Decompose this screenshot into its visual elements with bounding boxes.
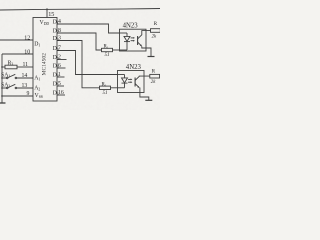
svg-text:3: 3	[58, 36, 61, 42]
ground of U3 emitter	[145, 99, 152, 101]
ground of U2 emitter	[148, 56, 155, 58]
node: bus junction at SA1	[1, 77, 3, 79]
node: bus junction at SA2	[1, 87, 3, 89]
op-amp U1 body: IC MC14502 rectangle	[33, 18, 57, 102]
resistor R1	[102, 48, 113, 51]
svg-text:14: 14	[22, 73, 28, 79]
svg-text:R1: R1	[104, 45, 109, 50]
svg-text:A2: A2	[34, 86, 40, 92]
svg-text:2k: 2k	[151, 80, 156, 85]
light arrows of U2	[131, 37, 135, 39]
optocoupler U3 4N23 box	[118, 71, 145, 93]
svg-text:4: 4	[58, 19, 61, 25]
wire: output pin 4 row	[57, 24, 120, 33]
svg-text:13: 13	[22, 83, 28, 89]
wire: output pin 6 stub	[57, 67, 66, 69]
diode LED of U3	[118, 74, 125, 76]
svg-text:11: 11	[23, 62, 29, 68]
svg-text:R3: R3	[8, 60, 14, 66]
node: bus junction at R3	[1, 66, 3, 68]
ground	[0, 102, 6, 104]
svg-text:9: 9	[27, 91, 30, 97]
svg-text:SA1: SA1	[1, 73, 10, 79]
svg-text:2k: 2k	[152, 35, 157, 40]
wire: output pin 7 row to opto2 anode	[57, 51, 118, 75]
wire: output pin 5 stub	[57, 85, 64, 87]
diode LED of U2	[120, 32, 128, 34]
resistor R (load of U3)	[150, 74, 160, 78]
wire: pin 9	[2, 95, 33, 97]
node: bus junction at pin 9	[1, 95, 3, 97]
svg-text:12: 12	[24, 35, 30, 41]
svg-text:6: 6	[58, 63, 61, 69]
svg-text:R1: R1	[102, 82, 107, 87]
svg-text:VDD: VDD	[40, 20, 50, 26]
wire: output pin 3 row down to R2	[57, 41, 100, 88]
wire: left ground bus	[1, 54, 3, 103]
wire: output pin 1 stub	[57, 76, 65, 78]
svg-text:5: 5	[58, 81, 61, 87]
wire: pin 12 input D1	[0, 39, 33, 41]
svg-text:A1: A1	[34, 76, 40, 82]
resistor R2	[100, 86, 111, 89]
light arrows of U3	[128, 78, 132, 80]
svg-text:1: 1	[58, 72, 61, 78]
svg-text:MC14502: MC14502	[41, 53, 47, 76]
svg-text:R: R	[154, 21, 158, 27]
svg-text:VSS: VSS	[35, 93, 43, 99]
svg-text:51: 51	[105, 53, 110, 58]
svg-text:SA2: SA2	[1, 83, 10, 89]
transistor Q2 phototransistor of U3	[134, 78, 136, 87]
svg-text:10: 10	[24, 49, 30, 55]
optocoupler U2 4N23 box	[120, 29, 147, 51]
svg-text:R: R	[152, 69, 156, 75]
wire: pin 10 input	[2, 53, 33, 55]
svg-text:4N23: 4N23	[126, 64, 142, 71]
svg-text:D1: D1	[34, 42, 40, 48]
wire: output pin 8 row to R1	[57, 33, 102, 50]
svg-text:51: 51	[103, 91, 108, 96]
wire: VDD pin 15 from rail to IC	[46, 9, 48, 17]
resistor R (load of U2)	[151, 29, 161, 33]
wire: output pin 16 stub	[57, 94, 65, 96]
svg-text:4N23: 4N23	[123, 22, 139, 29]
switch SA2	[2, 87, 6, 89]
svg-text:7: 7	[58, 46, 61, 52]
resistor R3	[2, 66, 5, 68]
wire: +V top supply rail	[0, 9, 160, 11]
transistor Q1 phototransistor of U2	[137, 36, 139, 45]
svg-text:16: 16	[58, 90, 64, 96]
node: junction dot on supply rail	[46, 8, 48, 10]
switch SA1	[2, 77, 6, 79]
svg-text:2: 2	[58, 55, 61, 61]
svg-text:15: 15	[48, 11, 54, 18]
wire: output pin 2 stub	[57, 59, 67, 61]
svg-text:8: 8	[58, 28, 61, 34]
